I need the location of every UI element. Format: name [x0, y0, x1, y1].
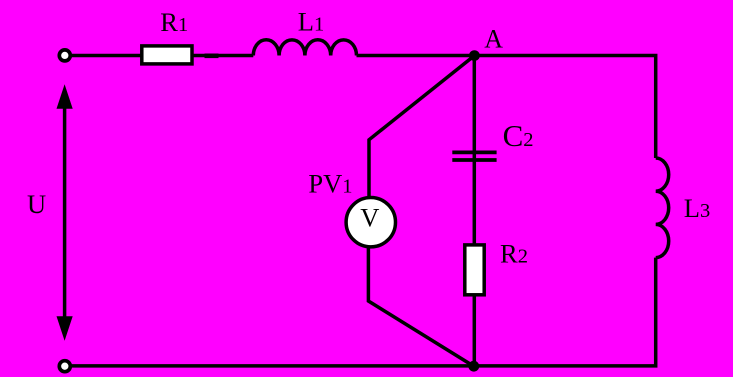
U arrow (double headed): [57, 84, 73, 341]
wire right side below L3 down to bottom corner and bottom wire: [69, 258, 656, 366]
wire top from L1 to right corner and down to L3: [357, 56, 656, 159]
node A junction dot: [469, 50, 480, 61]
wire PV1 bottom link to bottom node: [368, 248, 473, 367]
wire PV1 top link from node A: [369, 56, 474, 197]
capacitor C2: [452, 152, 496, 160]
inductor L3: [656, 158, 669, 258]
wire short thick dash after R1: [205, 53, 219, 58]
wire top from terminal to L1: [69, 54, 253, 58]
resistor R2: [465, 245, 484, 295]
inductor L1: [253, 40, 356, 56]
svg-text:A: A: [484, 24, 503, 53]
svg-text:V: V: [360, 203, 379, 233]
svg-text:U: U: [27, 189, 46, 219]
terminal top-left: [59, 50, 70, 61]
wire middle branch from node A down through C2 to bottom node: [473, 56, 477, 367]
resistor R1: [142, 46, 192, 64]
terminal bottom-left: [59, 361, 70, 372]
bottom node junction dot: [468, 361, 479, 372]
voltmeter PV1: [346, 198, 395, 247]
